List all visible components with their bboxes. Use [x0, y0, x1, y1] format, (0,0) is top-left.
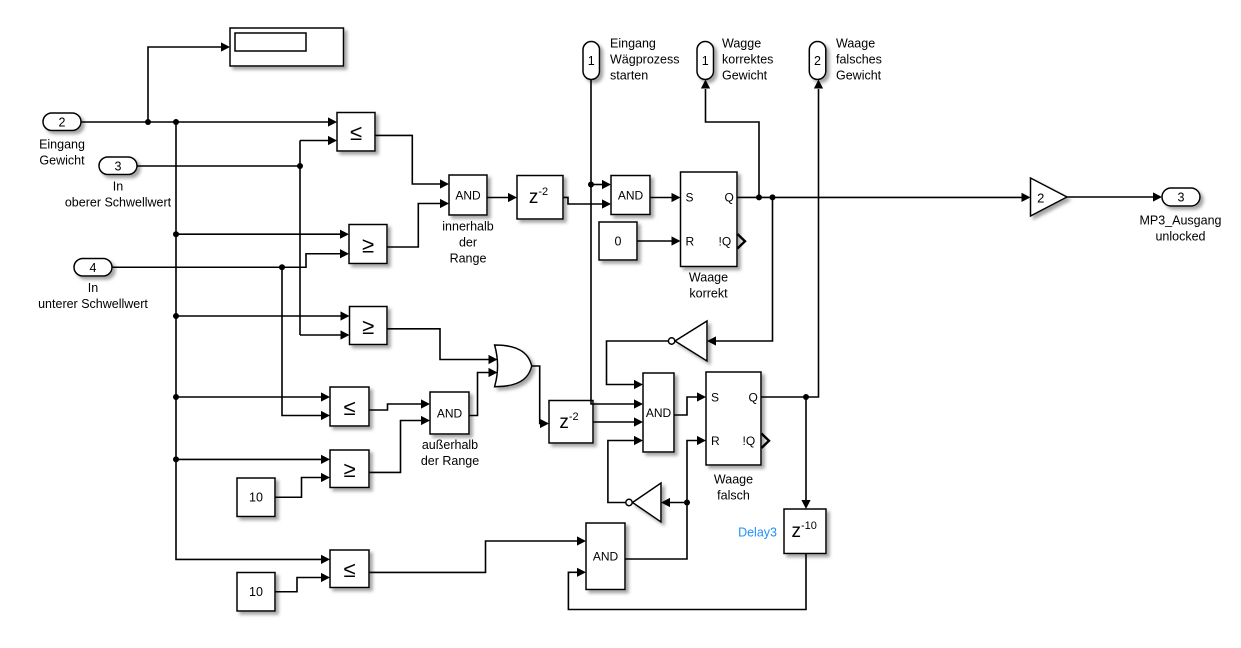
- svg-text:Wagge: Wagge: [722, 37, 761, 51]
- node Gewicht to rel2: [173, 231, 179, 237]
- wire constant10 upper to relational5 input2: [275, 478, 322, 498]
- outport 2 "Waage falsches Gewicht" (vertical oval): [809, 42, 826, 80]
- svg-text:S: S: [686, 191, 694, 205]
- relational operator 1 (less-equal): [337, 113, 375, 152]
- node inport1 branch to AND U3: [588, 182, 594, 188]
- svg-text:AND: AND: [437, 407, 463, 421]
- svg-text:2: 2: [1037, 191, 1044, 206]
- svg-text:R: R: [711, 434, 720, 448]
- wire branch inport4 down to relational4 input2: [282, 267, 322, 415]
- svg-text:1: 1: [702, 54, 709, 68]
- wire branch Q up to outport 1: [706, 89, 760, 197]
- inport 1 "Eingang Waegprozess starten" (vertical oval): [583, 42, 600, 80]
- wire branch to inverter N2 input: [670, 502, 687, 504]
- wire branch to relational1 input2: [300, 140, 329, 142]
- wire branch to relational4 input1: [176, 396, 322, 398]
- svg-text:AND: AND: [455, 189, 481, 203]
- svg-text:innerhalb: innerhalb: [442, 220, 493, 234]
- svg-text:Waage: Waage: [836, 37, 875, 51]
- svg-text:falsches: falsches: [836, 53, 882, 67]
- constant 10 (upper): [237, 478, 275, 517]
- svg-text:Q: Q: [749, 391, 758, 405]
- constant 0: [599, 222, 637, 260]
- node Gewicht bus start: [173, 119, 179, 125]
- svg-text:!Q: !Q: [743, 434, 756, 448]
- S-R flip-flop "Waage falsch": [706, 372, 769, 465]
- node Q falsch branch to delay z^-10: [803, 394, 809, 400]
- logical operator AND U6 (bottom): [586, 523, 625, 590]
- display block Display: [230, 28, 344, 66]
- wire relational3 output to OR input1: [387, 329, 489, 360]
- node Q korrekt branch to inverter N1: [770, 194, 776, 200]
- wire AND U5 output to S of Waage falsch: [674, 397, 698, 415]
- svg-text:≤: ≤: [350, 120, 362, 145]
- logical operator AND U2 "ausserhalb der Range": [430, 392, 469, 434]
- wire inport2 to relational1 input1: [81, 121, 329, 123]
- wire relational6 output to AND U6 input1: [369, 541, 578, 572]
- svg-text:unlocked: unlocked: [1155, 230, 1205, 244]
- svg-text:≤: ≤: [343, 395, 355, 420]
- wire inport1 vertical down to AND U5 input2: [591, 80, 635, 405]
- S-R flip-flop "Waage korrekt": [681, 172, 746, 267]
- svg-text:≤: ≤: [343, 557, 355, 582]
- svg-text:3: 3: [1178, 191, 1185, 205]
- NOT gate / inverter N2 (left pointing, bottom): [626, 483, 661, 522]
- svg-text:unterer Schwellwert: unterer Schwellwert: [38, 297, 148, 311]
- wire bus column x=176 (Gewicht signal) down to relational6 input1: [176, 122, 322, 559]
- svg-text:AND: AND: [618, 189, 644, 203]
- svg-text:Gewicht: Gewicht: [836, 69, 882, 83]
- relational operator 4 (less-equal): [330, 387, 369, 426]
- node oberer Schwellwert branch: [297, 163, 303, 169]
- svg-text:R: R: [686, 235, 695, 249]
- svg-text:korrektes: korrektes: [722, 53, 773, 67]
- svg-text:Eingang: Eingang: [610, 37, 656, 51]
- svg-text:≥: ≥: [362, 314, 374, 339]
- svg-text:Waage: Waage: [689, 271, 728, 285]
- svg-text:10: 10: [249, 585, 263, 599]
- svg-text:der Range: der Range: [421, 454, 479, 468]
- wire relational1 output to AND U1 input1: [375, 135, 441, 184]
- svg-text:AND: AND: [646, 406, 672, 420]
- constant 10 (lower): [237, 573, 275, 612]
- svg-text:≥: ≥: [362, 232, 374, 257]
- wire column x=300 (oberer Schwellwert): [299, 141, 301, 336]
- svg-text:1: 1: [588, 54, 595, 68]
- svg-text:!Q: !Q: [719, 235, 732, 249]
- wire Q of Waage korrekt to gain: [737, 196, 1022, 198]
- logical operator AND U3 (before Waage korrekt): [611, 176, 650, 215]
- svg-text:der: der: [459, 236, 477, 250]
- inport 4 "In unterer Schwellwert": [74, 259, 112, 277]
- svg-text:3: 3: [115, 160, 122, 174]
- wire OR output to delay D2: [532, 366, 541, 424]
- svg-text:2: 2: [59, 116, 66, 130]
- svg-text:10: 10: [249, 491, 263, 505]
- logical operator AND U1 "innerhalb der Range": [449, 175, 487, 215]
- wire AND U2 output to OR input2: [469, 373, 489, 416]
- wire delay D2 output to AND U5 input3: [593, 421, 635, 423]
- wire relational5 output to AND U2 input2: [369, 421, 422, 473]
- svg-text:AND: AND: [593, 550, 619, 564]
- wire delay D1 output to AND U3 input2: [563, 197, 603, 204]
- outport 3 "MP3_Ausgang unlocked": [1162, 188, 1200, 206]
- relational operator 6 (less-equal): [330, 550, 369, 588]
- wire AND U6 output up to R of Waage falsch: [625, 441, 698, 560]
- OR gate U4: [495, 345, 532, 387]
- svg-text:In: In: [113, 180, 123, 194]
- wire from port2 net up to display: [148, 47, 222, 122]
- relational operator 3 (greater-equal): [350, 307, 388, 345]
- wire branch to relational3 input2: [300, 334, 341, 336]
- wire branch Q falsch down to delay z^-10: [805, 397, 807, 501]
- svg-text:Eingang: Eingang: [39, 138, 85, 152]
- node Gewicht to rel5: [173, 456, 179, 462]
- svg-text:Q: Q: [725, 191, 734, 205]
- wire branch inport1 to AND U3 input1: [591, 184, 603, 186]
- svg-text:Delay3: Delay3: [738, 526, 777, 540]
- relational operator 5 (greater-equal): [330, 450, 369, 488]
- wire delay z^-10 output feedback to AND U6 input2: [568, 554, 806, 610]
- logical operator AND U5 (4 inputs): [643, 373, 674, 452]
- node Q korrekt branch to outport1: [756, 194, 762, 200]
- gain block 2: [1031, 178, 1068, 216]
- delay block z^-10 Delay3: [784, 509, 826, 554]
- wire constant10 lower to relational6 input2: [275, 578, 322, 592]
- svg-text:0: 0: [615, 235, 622, 249]
- wire branch to relational5 input1: [176, 458, 322, 460]
- wire inport4 to relational2 input2: [112, 254, 341, 268]
- wire branch to relational3 input1: [176, 315, 341, 317]
- inport 3 "In oberer Schwellwert": [99, 157, 137, 175]
- svg-text:korrekt: korrekt: [689, 287, 728, 301]
- node unterer Schwellwert branch: [279, 264, 285, 270]
- svg-text:2: 2: [814, 54, 821, 68]
- node display branch: [145, 119, 151, 125]
- node AND U6 output branch to inverter N2: [684, 500, 690, 506]
- svg-text:starten: starten: [610, 69, 648, 83]
- wire relational4 output to AND U2 input1: [369, 404, 422, 410]
- svg-text:oberer Schwellwert: oberer Schwellwert: [65, 196, 172, 210]
- delay block z^-2 D2: [549, 401, 593, 444]
- svg-text:4: 4: [90, 261, 97, 275]
- relational operator 2 (greater-equal): [349, 225, 387, 264]
- outport 1 "Wagge korrektes Gewicht" (vertical oval): [697, 42, 714, 80]
- wire inverter N2 output to AND U5 input4: [608, 441, 635, 503]
- wire gain output to outport 3: [1067, 196, 1154, 198]
- svg-text:MP3_Ausgang: MP3_Ausgang: [1139, 214, 1221, 228]
- svg-text:falsch: falsch: [717, 489, 750, 503]
- svg-text:S: S: [711, 391, 719, 405]
- svg-text:Gewicht: Gewicht: [722, 69, 768, 83]
- wire inverter N1 output to AND U5 input1: [607, 341, 669, 385]
- svg-text:Wägprozess: Wägprozess: [610, 53, 679, 67]
- wire constant0 to R of Waage korrekt: [637, 240, 672, 242]
- node Gewicht to rel4: [173, 394, 179, 400]
- NOT gate / inverter N1 (left pointing, top): [668, 321, 707, 361]
- svg-text:≥: ≥: [343, 457, 355, 482]
- wire relational2 output to AND U1 input2: [387, 204, 441, 248]
- svg-text:außerhalb: außerhalb: [422, 438, 478, 452]
- node Gewicht to rel3: [173, 313, 179, 319]
- wire branch Q down to inverter N1 input: [716, 197, 773, 341]
- wire AND U3 output to S of Waage korrekt: [650, 197, 672, 199]
- delay block z^-2 D1: [517, 176, 563, 220]
- svg-text:Range: Range: [450, 252, 487, 266]
- wire inport3 horizontal to column x=300: [137, 165, 301, 167]
- svg-text:Waage: Waage: [714, 473, 753, 487]
- inport 2 "Eingang Gewicht": [43, 113, 81, 131]
- svg-text:Gewicht: Gewicht: [39, 154, 85, 168]
- wire Q of Waage falsch up to outport 2: [761, 89, 819, 397]
- wire AND U1 output to delay D1: [487, 197, 509, 199]
- wire branch to relational2 input1: [176, 233, 341, 235]
- junction node dots: [145, 119, 809, 506]
- svg-text:In: In: [88, 281, 98, 295]
